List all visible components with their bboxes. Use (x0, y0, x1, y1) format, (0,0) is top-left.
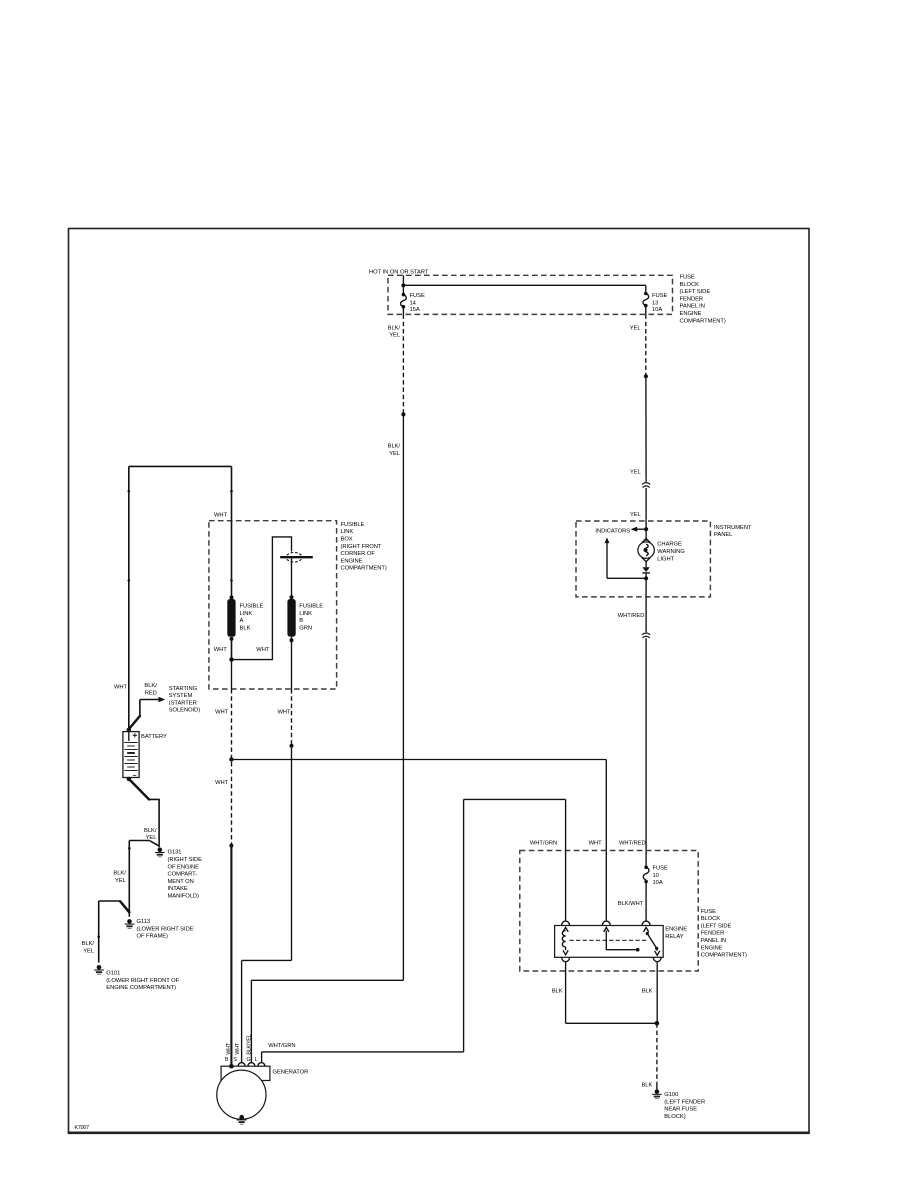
svg-text:OF ENGINE: OF ENGINE (168, 864, 200, 870)
svg-text:(LEFT FENDER: (LEFT FENDER (664, 1099, 705, 1105)
svg-text:WHT: WHT (589, 841, 603, 847)
node junction above charge warning light (644, 527, 648, 531)
svg-text:FUSIBLE: FUSIBLE (341, 522, 365, 528)
svg-text:WHT: WHT (215, 709, 229, 715)
svg-text:FUSE: FUSE (410, 293, 425, 299)
svg-text:WHT/RED: WHT/RED (619, 841, 646, 847)
bolted connector above fusible link B (280, 552, 313, 597)
terminal arc switch in (602, 921, 610, 925)
fusible link B GRN (287, 595, 323, 689)
terminal arc switch out (653, 957, 661, 961)
terminal arc generator L (258, 1063, 265, 1067)
svg-text:B: B (299, 618, 303, 624)
wire BLK/YEL battery negative to ground G131 (127, 777, 160, 848)
svg-text:(STARTER: (STARTER (169, 700, 197, 706)
svg-text:ENGINE: ENGINE (701, 945, 723, 951)
svg-text:BLK/YEL: BLK/YEL (246, 1034, 252, 1054)
svg-text:G113: G113 (137, 919, 151, 925)
svg-text:BLOCK: BLOCK (701, 916, 721, 922)
connector splice on WHT wire to generator B (229, 844, 233, 848)
svg-text:YEL: YEL (83, 948, 95, 954)
wire WHT to generator terminal S (242, 746, 292, 1063)
svg-text:WHT: WHT (114, 685, 128, 691)
wire WHT/RED instrument panel to connector (618, 578, 646, 632)
svg-text:BLK/WHT: BLK/WHT (618, 901, 644, 907)
wire WHT fusible link A to splice (215, 689, 231, 846)
generator body (217, 1070, 266, 1119)
svg-text:WHT: WHT (226, 1042, 232, 1054)
svg-text:RED: RED (145, 690, 157, 696)
svg-text:COMPARTMENT): COMPARTMENT) (701, 953, 747, 959)
svg-text:BOX: BOX (341, 537, 353, 543)
fuse 10 10A (643, 865, 668, 886)
node WHT junction in fusible link box (229, 657, 233, 661)
svg-text:MENT ON: MENT ON (168, 879, 194, 885)
node junction below charge warning light (644, 576, 648, 580)
wire BLK engine relay coil to junction (552, 962, 657, 1024)
svg-text:STARTING: STARTING (169, 686, 198, 692)
svg-text:WHT/GRN: WHT/GRN (530, 841, 557, 847)
svg-text:(LEFT SIDE: (LEFT SIDE (680, 289, 711, 295)
terminal arc coil + (562, 921, 570, 925)
svg-text:COMPARTMENT): COMPARTMENT) (341, 566, 387, 572)
svg-text:G131: G131 (168, 850, 182, 856)
svg-text:WHT: WHT (214, 647, 228, 653)
wire WHT junction to engine relay (231, 760, 606, 922)
instrument panel box (576, 521, 752, 597)
svg-text:BLOCK: BLOCK (680, 282, 700, 288)
svg-text:YEL: YEL (630, 325, 642, 331)
svg-text:10A: 10A (653, 880, 663, 886)
svg-text:(LEFT SIDE: (LEFT SIDE (701, 923, 732, 929)
svg-text:PANEL: PANEL (714, 532, 733, 538)
svg-text:CORNER OF: CORNER OF (341, 551, 376, 557)
svg-text:WHT: WHT (256, 647, 270, 653)
svg-text:BLK/: BLK/ (82, 941, 95, 947)
relay coil-switch dashed link (570, 939, 649, 941)
wire WHT junction to fusible link B (232, 537, 292, 660)
svg-text:PANEL IN: PANEL IN (680, 304, 705, 310)
svg-text:BLK/: BLK/ (388, 444, 401, 450)
svg-text:15A: 15A (410, 307, 420, 313)
svg-text:(RIGHT SIDE: (RIGHT SIDE (168, 857, 203, 863)
wire WHT into fusible link A (214, 466, 233, 597)
svg-text:FUSIBLE: FUSIBLE (240, 604, 264, 610)
wire branch to other indicators (605, 537, 647, 578)
svg-text:FENDER: FENDER (701, 931, 725, 937)
node BLK junction (655, 1021, 660, 1026)
svg-text:10A: 10A (652, 307, 662, 313)
wire WHT/RED connector to fuse 10 (619, 638, 646, 867)
svg-text:LINK: LINK (240, 611, 253, 617)
svg-text:FUSE: FUSE (652, 293, 667, 299)
relay switch (644, 927, 660, 955)
svg-text:YEL: YEL (630, 470, 642, 476)
terminal arc generator G (248, 1063, 255, 1067)
svg-text:WHT/RED: WHT/RED (618, 613, 645, 619)
svg-text:BLK: BLK (642, 989, 653, 995)
svg-text:FUSE: FUSE (653, 866, 668, 872)
svg-text:(LOWER RIGHT SIDE: (LOWER RIGHT SIDE (137, 926, 194, 932)
svg-text:HOT IN ON OR START: HOT IN ON OR START (369, 269, 429, 275)
in-line connector on YEL wire (642, 483, 650, 488)
node generator terminal B (229, 1064, 234, 1069)
svg-text:GRN: GRN (299, 626, 312, 632)
svg-text:BLK/: BLK/ (144, 683, 157, 689)
in-line connector on WHT/RED wire (642, 633, 650, 638)
svg-text:BLK/: BLK/ (388, 325, 401, 331)
svg-text:OF FRAME): OF FRAME) (137, 934, 169, 940)
node INDICATORS (arrow to indicators) (595, 527, 646, 535)
terminal arc fuse 10 in (642, 921, 650, 925)
svg-text:BLOCK): BLOCK) (664, 1114, 685, 1120)
svg-text:(LOWER RIGHT FRONT OF: (LOWER RIGHT FRONT OF (106, 978, 179, 984)
wire WHT/GRN generator L to engine relay (262, 799, 603, 1063)
wire WHT fusible link B to connector (277, 689, 291, 746)
svg-text:FUSE: FUSE (680, 275, 695, 281)
svg-text:RELAY: RELAY (665, 934, 684, 940)
svg-text:NEAR FUSE: NEAR FUSE (664, 1107, 697, 1113)
wire BLK engine relay switch to junction (642, 962, 658, 1024)
wire YEL fuse 13 down (630, 314, 646, 376)
svg-text:MANIFOLD): MANIFOLD) (168, 894, 200, 900)
svg-text:G101: G101 (106, 971, 120, 977)
svg-text:COMPARTMENT): COMPARTMENT) (680, 318, 726, 324)
wire BLK/WHT fuse 10 to engine relay (618, 882, 646, 922)
engine relay (555, 926, 688, 958)
svg-text:BLK/: BLK/ (144, 828, 157, 834)
svg-text:INDICATORS: INDICATORS (595, 528, 630, 534)
svg-text:PANEL IN: PANEL IN (701, 938, 726, 944)
svg-text:YEL: YEL (389, 333, 401, 339)
svg-text:10: 10 (653, 873, 659, 879)
svg-text:K7007: K7007 (75, 1125, 90, 1131)
ground G101 (94, 965, 179, 991)
svg-text:INTAKE: INTAKE (168, 886, 188, 892)
wire WHT junction to box edge (231, 660, 233, 689)
ground G100 (652, 1089, 705, 1120)
connector splice on BLK/YEL wire (401, 412, 405, 416)
charge warning light (638, 529, 685, 562)
relay fixed contact from WHT wire (604, 927, 640, 951)
svg-text:WHT: WHT (215, 780, 229, 786)
svg-text:ENGINE COMPARTMENT): ENGINE COMPARTMENT) (106, 985, 176, 991)
svg-text:LINK: LINK (299, 611, 312, 617)
svg-text:YEL: YEL (115, 878, 127, 884)
svg-text:SYSTEM: SYSTEM (169, 693, 193, 699)
svg-text:G100: G100 (664, 1092, 678, 1098)
svg-text:COMPART-: COMPART- (168, 872, 198, 878)
connector splice on YEL wire (644, 374, 648, 378)
generator (221, 1066, 308, 1080)
wire feed into fuse block (403, 275, 645, 294)
svg-text:ENGINE: ENGINE (341, 558, 363, 564)
terminal arc coil ground (562, 957, 570, 961)
svg-text:WHT: WHT (277, 709, 291, 715)
svg-text:YEL: YEL (630, 512, 642, 518)
wire BLK/YEL branch to ground G113 (113, 841, 158, 917)
svg-text:LIGHT: LIGHT (657, 556, 674, 562)
fusible link box (209, 521, 387, 689)
ground G131 (155, 848, 202, 900)
node junction at fuse 14 (401, 283, 405, 287)
svg-text:WHT/GRN: WHT/GRN (268, 1043, 295, 1049)
wire BLK/YEL branch to ground G101 (82, 901, 121, 963)
svg-text:G: G (247, 1057, 251, 1063)
svg-text:BATTERY: BATTERY (141, 734, 167, 740)
svg-text:WHT: WHT (235, 1042, 241, 1054)
svg-text:BLK: BLK (552, 989, 563, 995)
svg-text:BLK: BLK (240, 626, 251, 632)
wire BLK/RED to starting system (129, 683, 200, 729)
wire WHT to generator terminal B (230, 846, 232, 1067)
svg-text:ENGINE: ENGINE (680, 311, 702, 317)
relay coil (562, 927, 568, 954)
connector splice on WHT wire to generator S (290, 744, 294, 748)
svg-text:YEL: YEL (389, 451, 401, 457)
fuse 13 10A (643, 292, 667, 315)
svg-text:13: 13 (652, 300, 658, 306)
node junction WHT to engine relay (229, 757, 233, 761)
svg-text:ENGINE: ENGINE (665, 927, 687, 933)
svg-text:CHARGE: CHARGE (657, 542, 682, 548)
wire BLK junction to ground G100 (641, 1023, 656, 1089)
svg-text:(RIGHT FRONT: (RIGHT FRONT (341, 544, 382, 550)
svg-text:14: 14 (410, 300, 417, 306)
svg-text:A: A (240, 618, 244, 624)
terminal arc generator S (238, 1063, 245, 1067)
ground generator case (237, 1115, 247, 1124)
wire BLK/YEL fuse 14 down (388, 314, 404, 414)
svg-text:SOLENOID): SOLENOID) (169, 708, 201, 714)
fuse block box (engine compartment, top) (388, 275, 726, 325)
svg-text:FUSIBLE: FUSIBLE (299, 604, 323, 610)
wire BLK/YEL to generator terminal G (251, 414, 403, 1063)
ground G113 (125, 919, 194, 940)
battery (123, 728, 167, 778)
svg-text:GENERATOR: GENERATOR (273, 1070, 309, 1076)
svg-text:L: L (255, 1057, 258, 1063)
svg-text:INSTRUMENT: INSTRUMENT (714, 525, 752, 531)
svg-text:FUSE: FUSE (701, 909, 716, 915)
svg-text:WHT: WHT (214, 512, 228, 518)
svg-text:BLK/: BLK/ (113, 871, 126, 877)
svg-text:BLK: BLK (641, 1083, 652, 1089)
svg-text:LINK: LINK (341, 529, 354, 535)
diode below charge warning light (642, 562, 650, 579)
fuse block box (left fender) (520, 851, 747, 972)
wire WHT battery positive to fusible links (114, 466, 232, 729)
svg-text:WARNING: WARNING (657, 549, 685, 555)
wire YEL to in-line connector (630, 376, 646, 482)
wire YEL connector to instrument panel (630, 488, 646, 529)
fusible link A BLK (214, 595, 264, 659)
svg-text:FENDER: FENDER (680, 296, 704, 302)
fuse 14 15A (401, 293, 425, 315)
